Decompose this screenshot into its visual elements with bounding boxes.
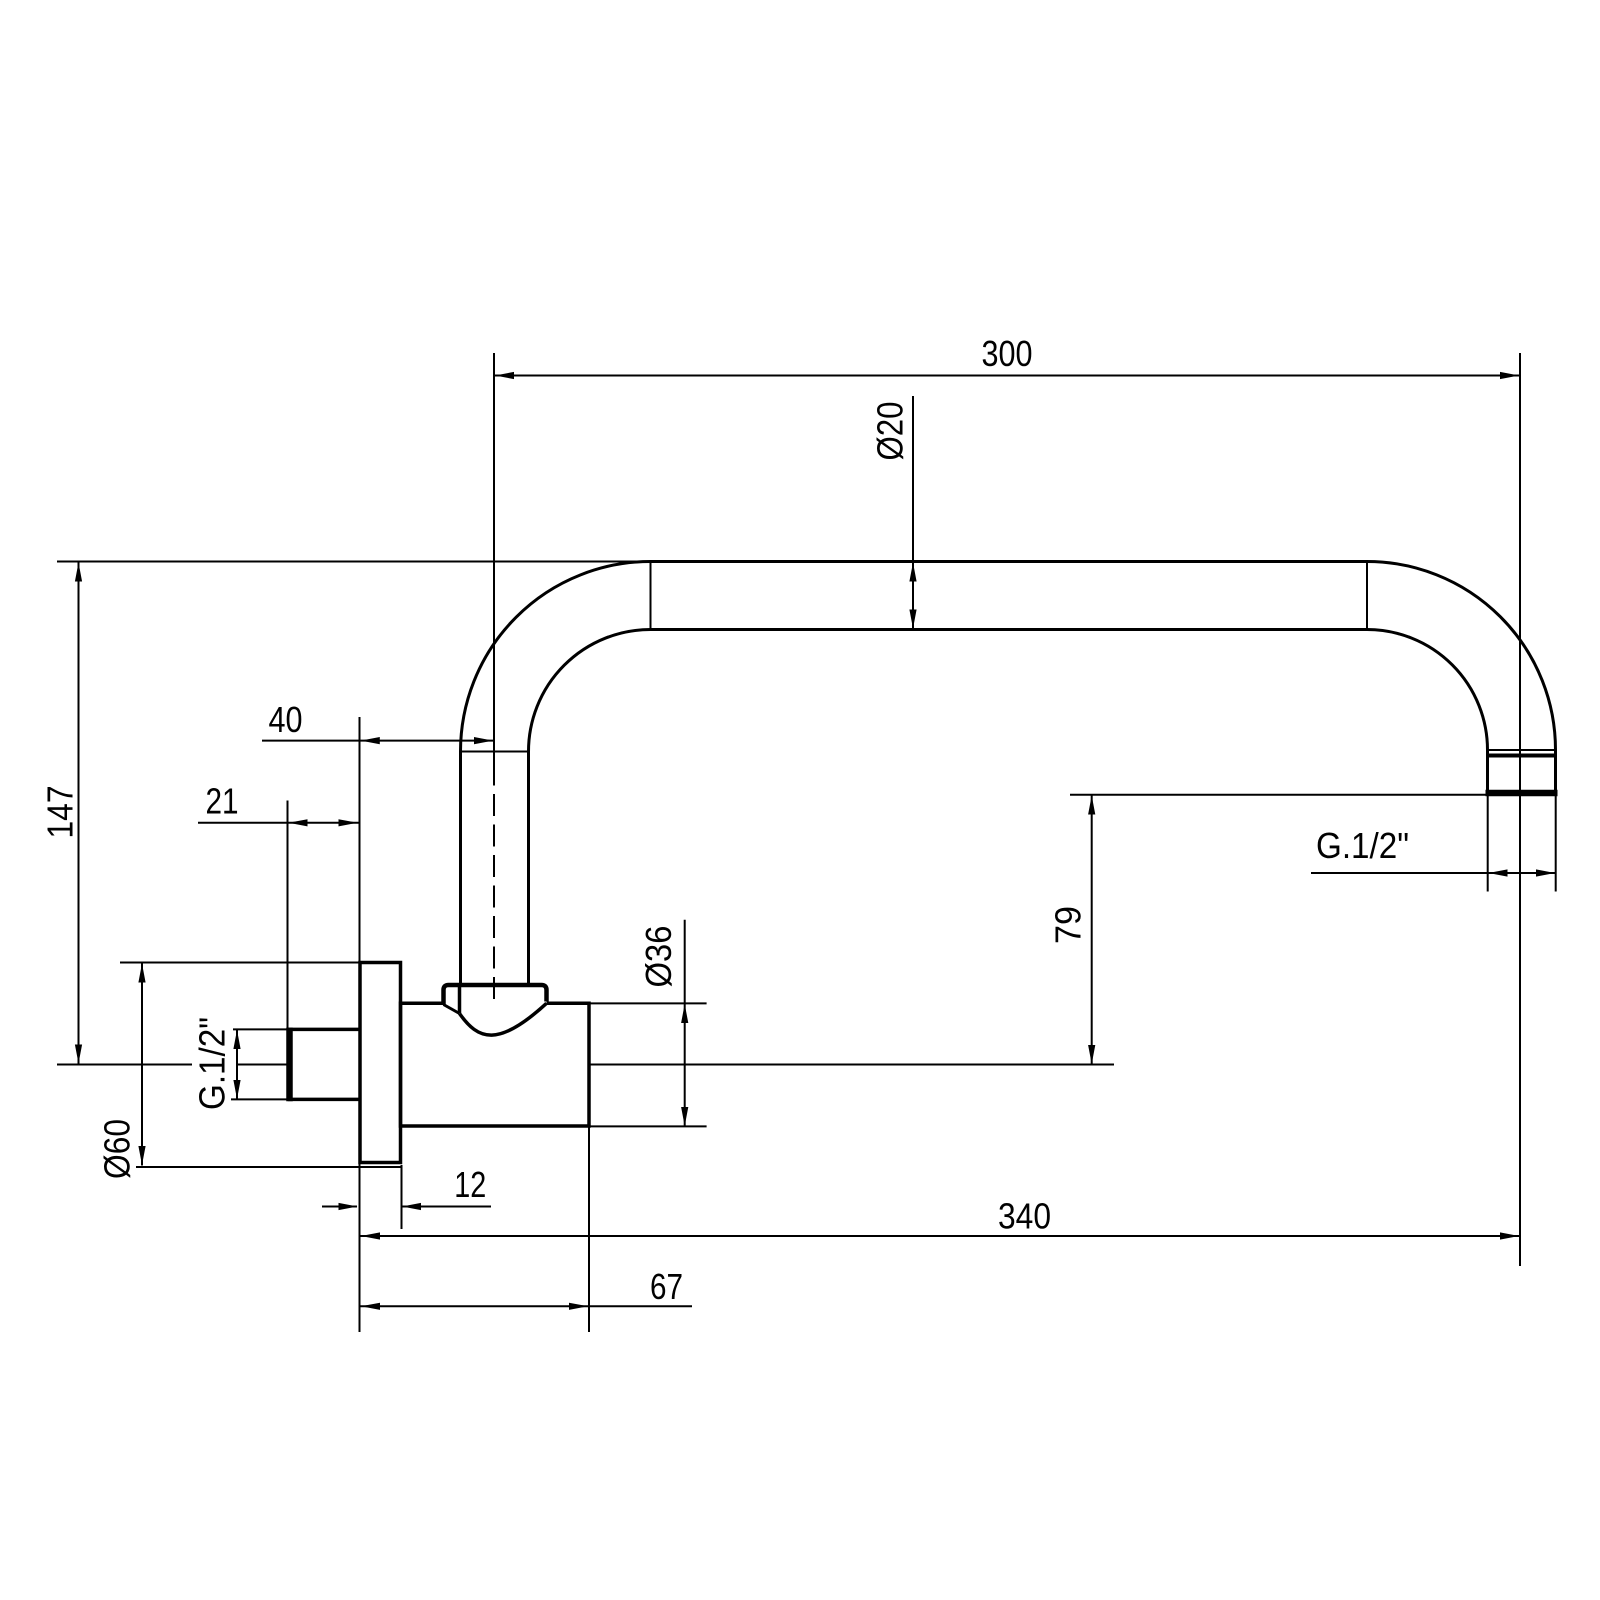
cone cover ear inner edge bbox=[458, 985, 462, 1013]
svg-text:147: 147 bbox=[40, 786, 81, 839]
79 top extension bbox=[1070, 794, 1487, 796]
wire weld seam tip bbox=[1488, 749, 1556, 751]
cone cover top bar bbox=[444, 985, 547, 1005]
tip end face thick bbox=[1486, 790, 1558, 797]
dim Ø20 leader bbox=[912, 396, 914, 630]
dim 300 line bbox=[494, 375, 1519, 377]
147 bottom extension segments bbox=[57, 1064, 192, 1066]
bracket body Ø36 bbox=[401, 1003, 590, 1126]
nipple thread end thick bar bbox=[286, 1028, 293, 1102]
centerline vertical dashed part bbox=[493, 794, 495, 1001]
dim 340 arrows bbox=[361, 1232, 1519, 1239]
dim G12 right line bbox=[1311, 872, 1556, 874]
dim 21 arrows bbox=[289, 819, 358, 826]
svg-text:Ø20: Ø20 bbox=[870, 402, 911, 461]
dim 79 arrows bbox=[1088, 796, 1095, 1065]
dim 40 line bbox=[262, 740, 493, 742]
threaded nipple G.1/2 bottom edge bbox=[288, 1098, 360, 1102]
svg-text:Ø60: Ø60 bbox=[97, 1119, 138, 1179]
dim 147 line bbox=[78, 563, 80, 1064]
wire weld seam left bend top bbox=[650, 562, 652, 630]
svg-text:G.1/2": G.1/2" bbox=[1316, 825, 1409, 866]
dim 40 arrows bbox=[361, 737, 493, 744]
dim 21 line bbox=[198, 822, 359, 824]
svg-text:67: 67 bbox=[650, 1266, 683, 1307]
wall flange Ø60 bbox=[360, 963, 401, 1163]
dim G12 left line bbox=[236, 1030, 238, 1100]
21 extension line bbox=[287, 801, 289, 1029]
flange right bottom extension bbox=[401, 1165, 403, 1229]
wall plane extension above flange bbox=[359, 717, 361, 964]
dim 67 line bbox=[360, 1305, 692, 1307]
300 right extension line long bbox=[1519, 353, 1521, 1266]
centerline vertical solid part / 300 left extension bbox=[493, 353, 495, 786]
wire weld seam right bend bbox=[1366, 562, 1368, 630]
Ø60 top extension bbox=[120, 962, 360, 964]
svg-text:12: 12 bbox=[454, 1164, 486, 1205]
dim 12 arrows outside pointing inward bbox=[339, 1203, 422, 1210]
G12 left bottom extension bbox=[231, 1098, 288, 1100]
wall plane extension below flange bbox=[359, 1164, 361, 1332]
dim Ø60 arrows bbox=[138, 964, 145, 1166]
shower arm tube inner outline bbox=[529, 630, 1488, 985]
threaded nipple G.1/2 top edge bbox=[288, 1028, 360, 1032]
wire weld seam left bend bottom bbox=[461, 751, 529, 753]
svg-text:40: 40 bbox=[269, 699, 303, 740]
dim 300 arrows bbox=[495, 372, 1519, 379]
G12 right extensions bbox=[1487, 796, 1489, 892]
dim 67 arrows bbox=[361, 1303, 588, 1310]
Ø36 top extension bbox=[589, 1002, 707, 1004]
G12 left top extension bbox=[233, 1028, 288, 1030]
dim Ø36 line bbox=[684, 920, 686, 1127]
dim 340 line bbox=[360, 1235, 1520, 1237]
147 top extension bbox=[57, 561, 648, 563]
svg-text:300: 300 bbox=[982, 333, 1033, 374]
dim 147 arrows bbox=[75, 563, 82, 1064]
Ø60 bottom extension bbox=[136, 1166, 401, 1168]
79 bottom extension bbox=[589, 1064, 1114, 1066]
svg-text:G.1/2": G.1/2" bbox=[192, 1017, 233, 1110]
dim 79 line bbox=[1091, 796, 1093, 1065]
svg-text:21: 21 bbox=[206, 781, 239, 822]
dim Ø60 line bbox=[141, 963, 143, 1166]
svg-text:Ø36: Ø36 bbox=[638, 926, 679, 988]
Ø36 bottom extension bbox=[589, 1125, 707, 1127]
thread top edge at tip bbox=[1487, 754, 1557, 758]
body right extension down bbox=[588, 1126, 590, 1332]
svg-text:340: 340 bbox=[998, 1196, 1051, 1237]
svg-text:79: 79 bbox=[1048, 906, 1089, 944]
dim G12 left arrows bbox=[233, 1030, 240, 1099]
dim 12 lines bbox=[322, 1206, 357, 1208]
dim Ø36 arrows bbox=[681, 1004, 688, 1126]
cone cover ear bottom diagonal bbox=[444, 1005, 460, 1014]
dim G12 right arrows bbox=[1489, 869, 1556, 876]
shower arm tube outer outline bbox=[461, 562, 1556, 985]
dim Ø20 arrows bbox=[909, 563, 916, 629]
cone cover bowl arc bbox=[460, 1003, 547, 1035]
